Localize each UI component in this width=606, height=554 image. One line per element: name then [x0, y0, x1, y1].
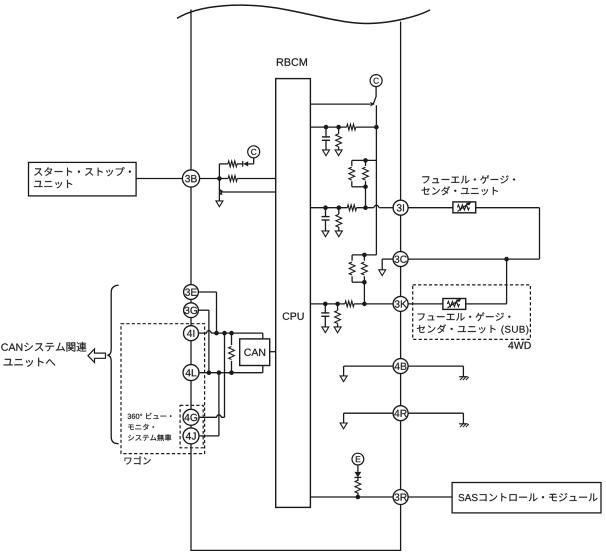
wire 4B row horizontal [344, 365, 464, 367]
wire 3G to CAN-L [198, 309, 209, 311]
connector 3G circle [184, 303, 199, 318]
resistor block1 left [351, 160, 353, 166]
wire right bus 3R to bottom [400, 505, 402, 551]
label CAN system line1 [1, 342, 86, 352]
ground open arrow under 3K capacitor [322, 327, 329, 333]
ground open arrow left of 3C [379, 270, 386, 276]
label fuel gauge SUB line2 [417, 324, 529, 334]
wire block2 to 3K row [363, 282, 365, 304]
resistor 3I row series [347, 205, 356, 211]
fuel sender variable resistor box [453, 202, 476, 213]
connector 3I circle [393, 200, 408, 215]
ground open arrow under 3I resistor [335, 231, 342, 237]
wire arrow junction to RBCM left edge [221, 191, 276, 193]
node 3K row resistor tap [335, 302, 340, 307]
label fuel gauge sender line2 [422, 186, 498, 195]
label start-stop unit line1 [34, 167, 131, 176]
wire right bus top to 3I [400, 22, 402, 201]
hollow arrow to CAN system units [88, 349, 106, 363]
wire junction up to diode branch [218, 164, 220, 179]
ground open arrow left of 4B [340, 376, 347, 382]
resistor 3K row to ground [337, 304, 339, 311]
wire 4B left drop [343, 366, 345, 376]
node block1 top [363, 158, 368, 163]
wire RBCM to 3I with hop [310, 207, 347, 209]
wire junction down to ground arrow [218, 179, 220, 201]
node 3I row resistor tap [337, 205, 342, 210]
resistor block1 right [365, 160, 367, 166]
node block1 bottom [363, 185, 368, 190]
wire block1 top bar [352, 159, 377, 161]
wire 4G to CAN-H with hop [199, 415, 225, 418]
wire 4R right drop [462, 413, 464, 424]
wire 3E to CAN-H [198, 291, 216, 293]
connector E circle [352, 453, 364, 465]
chassis ground right of 4R [459, 423, 468, 425]
wire CAN-L row 4L [199, 372, 263, 374]
RBCM module box [276, 79, 311, 508]
node row2 resistor tap [336, 125, 341, 130]
resistor 3K row series [345, 301, 354, 307]
wire left bus 3E to 3G [190, 299, 192, 302]
CAN transceiver box [240, 339, 270, 366]
node CAN-H resistor junction [229, 331, 234, 336]
resistor block2 right [363, 255, 365, 261]
node CAN-L resistor junction [229, 370, 234, 375]
wire RBCM to 3K [310, 303, 345, 305]
resistor 3I row to ground [338, 208, 340, 215]
360 view monitor dashed box [180, 405, 203, 447]
ground open arrow under row2 resistor [335, 150, 342, 156]
node CAN-H 3E junction [214, 331, 219, 336]
node CAN-L 4J junction [217, 370, 222, 375]
resistor on diode branch [228, 161, 237, 167]
connector 3C circle [393, 252, 408, 267]
capacitor 3K row to ground [324, 304, 326, 313]
wire 3R to SAS box [408, 496, 452, 498]
capacitor row2 to ground [325, 127, 327, 137]
terminating resistor between CAN lines [231, 333, 233, 345]
wire right bus 3C to 3K [400, 267, 402, 297]
wire CAN-H down behind CAN box [262, 333, 264, 373]
diode E branch (cathode down) [355, 472, 362, 477]
wire left bus vertical (3B branch) [190, 10, 192, 170]
node E branch on 3R row [356, 495, 361, 500]
wire C1 down with diagonal [375, 87, 377, 97]
node block2 bottom [362, 280, 367, 285]
ground open arrow under 3K resistor [334, 327, 341, 333]
resistor block2 left [351, 255, 353, 261]
wire tap down to SUB sender [506, 259, 508, 304]
label 360 view line2 [128, 424, 154, 430]
label CAN [244, 349, 265, 356]
node 3K row capacitor tap [323, 302, 328, 307]
wire right bus 4B to 4R [400, 374, 402, 406]
wagon dashed box [121, 324, 205, 454]
wire left bus 4L to 4G [190, 381, 192, 410]
wire CAN-H row 4I with hop [199, 331, 263, 334]
connector 4G circle [183, 409, 199, 425]
connector 3B circle [182, 170, 199, 187]
wire E to diode [357, 465, 359, 472]
wire right bus 3K to 4B [400, 311, 402, 358]
resistor row2 to ground [338, 127, 340, 134]
wire left bus 4J to bottom [190, 444, 192, 551]
node sender loop tap to SUB [504, 257, 509, 262]
ground open arrow under 3I capacitor [322, 231, 329, 237]
wire block2 top bar [352, 254, 376, 256]
resistor E branch [355, 480, 361, 493]
wire right bus 4R to 3R [400, 421, 402, 490]
wire long vertical from C1 junction [375, 105, 377, 255]
wire RBCM to 3R [310, 496, 393, 498]
wire CAN box to RBCM [270, 351, 276, 353]
wire 4J to CAN-L [199, 435, 219, 437]
label 360 view line3 [128, 434, 171, 441]
wire SUB sender to tap corner [466, 303, 507, 305]
label SAS control module [459, 493, 598, 501]
SAS control module box [452, 483, 601, 513]
wire left bus 3B to 3E [190, 187, 192, 285]
wire left bus 4G to 4J [190, 425, 192, 428]
wire RBCM row2 to vertical [310, 126, 346, 128]
wire start-stop unit to 3B [136, 178, 182, 180]
wire 3I to sender resistor [408, 207, 453, 209]
node row2 capacitor tap [324, 125, 329, 130]
wire block1 to 3I row [365, 187, 367, 208]
connector 4R circle [393, 406, 408, 421]
label CPU [283, 313, 304, 320]
diode to connector C (cathode left) [242, 161, 244, 167]
connector 3K circle [393, 296, 408, 311]
wire block2 bottom bar [352, 281, 364, 283]
direction arrow into RBCM at 3B branch [219, 188, 224, 192]
ground open arrow below 3B junction [216, 201, 223, 207]
4WD dashed box [413, 285, 531, 340]
node row2 right junction [374, 125, 379, 130]
label fuel gauge SUB line1 [418, 312, 511, 321]
node CAN-H 4G junction [222, 331, 227, 336]
connector C2 circle [248, 146, 260, 158]
node 3K row block2 junction [362, 302, 367, 307]
wire left bus 3G to 4I [190, 318, 192, 326]
node CAN-L 3G junction [207, 370, 212, 375]
wire 3K to SUB sender resistor [408, 303, 443, 305]
label wagon [125, 456, 151, 464]
connector 4B circle [393, 359, 408, 374]
connector 4I circle [184, 326, 199, 341]
label 360 view line1 [128, 413, 172, 419]
wire break squiggle at top [177, 5, 430, 23]
wire 4B right drop [462, 366, 464, 377]
label start-stop unit line2 [34, 180, 72, 188]
wire left bus 4I to 4L [190, 341, 192, 365]
wire right bus 3I to 3C [400, 215, 402, 251]
wire sender loop bottom to 3C [408, 258, 539, 260]
brace for CAN system units [107, 285, 118, 444]
wire RBCM to C1 with direction arrow [310, 103, 370, 105]
label 4WD [508, 342, 531, 349]
label RBCM [277, 58, 307, 66]
node 3I row capacitor tap [323, 205, 328, 210]
label fuel gauge sender line1 [422, 175, 515, 184]
wire 4R left drop [343, 413, 345, 423]
connector 3R circle [393, 490, 408, 505]
ground open arrow under row2 capacitor [323, 150, 330, 156]
resistor row2 series [347, 124, 356, 130]
connector C1 circle [370, 75, 382, 87]
connector 4J circle [183, 428, 199, 444]
capacitor 3I row to ground [325, 208, 327, 217]
label CAN system line2 [4, 358, 56, 367]
node 3I row block1 junction [363, 205, 368, 210]
wire 3C left to ground [382, 258, 393, 260]
fuel sender SUB variable resistor box [443, 299, 466, 310]
connector 4L circle [183, 365, 199, 381]
node block2 top [362, 253, 367, 258]
wire 4R row horizontal [344, 412, 464, 414]
ground open arrow left of 4R [340, 423, 347, 429]
connector 3E circle [184, 285, 199, 300]
wire block1 bottom bar [352, 186, 366, 188]
start-stop unit box [29, 162, 137, 196]
wire bottom horizontal [190, 549, 401, 551]
resistor on 3B line [228, 176, 237, 182]
wire sender loop right and down [476, 207, 540, 209]
node junction on 3B line [217, 176, 222, 181]
chassis ground right of 4B [459, 376, 468, 378]
wire 3B to RBCM with resistor [200, 178, 229, 180]
